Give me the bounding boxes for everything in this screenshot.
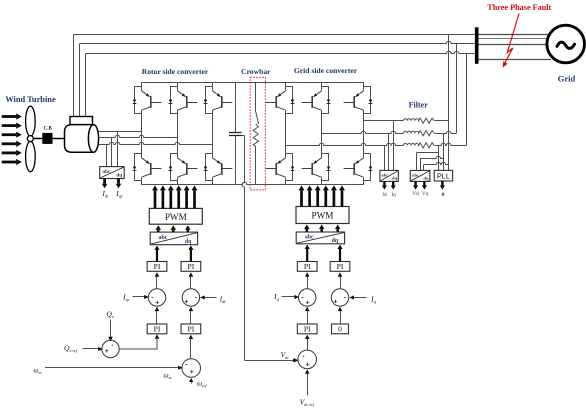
svg-text:θ: θ (442, 192, 445, 198)
svg-text:Crowbar: Crowbar (241, 67, 271, 76)
svg-text:+: + (105, 348, 109, 355)
svg-text:abc: abc (102, 169, 110, 175)
svg-text:dq: dq (332, 238, 339, 244)
svg-text:Filter: Filter (409, 101, 429, 110)
svg-text:Wind Turbine: Wind Turbine (5, 95, 56, 104)
svg-text:PI: PI (188, 325, 195, 334)
svg-text:+: + (334, 298, 338, 305)
svg-text:PWM: PWM (312, 211, 334, 221)
svg-text:0: 0 (338, 325, 342, 334)
svg-text:dq: dq (116, 173, 122, 179)
svg-text:PI: PI (188, 262, 195, 271)
svg-text:Rotor side converter: Rotor side converter (142, 67, 209, 76)
svg-text:-: - (195, 295, 197, 302)
svg-text:abc: abc (412, 173, 419, 178)
svg-text:abc: abc (159, 235, 168, 241)
svg-text:+: + (155, 300, 159, 307)
svg-text:+: + (306, 300, 310, 307)
svg-text:Iq: Iq (391, 192, 396, 198)
svg-text:-: - (111, 342, 113, 349)
svg-text:PI: PI (304, 325, 311, 334)
svg-text:PI: PI (304, 262, 311, 271)
svg-text:PLL: PLL (437, 172, 450, 181)
svg-text:abc: abc (381, 173, 388, 178)
svg-text:Vq: Vq (422, 191, 429, 197)
svg-text:Three Phase Fault: Three Phase Fault (487, 3, 551, 12)
svg-text:PI: PI (154, 262, 161, 271)
svg-text:+: + (184, 298, 188, 305)
svg-text:PWM: PWM (165, 212, 187, 222)
svg-text:C.B: C.B (44, 127, 53, 132)
svg-text:Grid side converter: Grid side converter (294, 66, 358, 75)
svg-text:PI: PI (154, 325, 161, 334)
svg-text:dq: dq (185, 239, 192, 245)
svg-text:+: + (306, 361, 310, 368)
svg-text:-: - (301, 294, 303, 301)
svg-text:-: - (302, 353, 304, 360)
svg-text:abc: abc (305, 235, 314, 241)
svg-text:-: - (185, 361, 187, 368)
svg-text:PI: PI (337, 262, 344, 271)
svg-text:-: - (151, 294, 153, 301)
svg-text:Vd: Vd (412, 191, 419, 197)
svg-text:dq: dq (423, 176, 429, 181)
svg-text:Grid: Grid (558, 74, 576, 84)
svg-text:+: + (190, 369, 194, 376)
svg-text:dq: dq (392, 176, 398, 181)
svg-text:Id: Id (382, 192, 387, 198)
svg-text:-: - (344, 295, 346, 302)
